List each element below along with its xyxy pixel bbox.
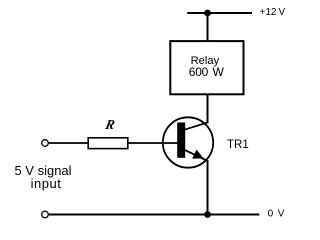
node +12V junction dot <box>204 10 211 17</box>
transistor TR1 <box>163 117 213 167</box>
wire relay bottom to collector <box>207 95 209 124</box>
wire emitter to 0V rail <box>207 160 209 215</box>
input terminal bottom <box>42 211 49 218</box>
node 0V junction dot <box>204 211 211 218</box>
input terminal top <box>42 140 49 147</box>
svg-text:TR1: TR1 <box>227 139 249 151</box>
wire base lead <box>49 142 178 144</box>
svg-text:input: input <box>31 176 62 191</box>
svg-text:0 V: 0 V <box>268 209 286 220</box>
collector lead <box>185 122 209 129</box>
emitter lead <box>185 150 209 161</box>
svg-text:600 W: 600 W <box>189 65 225 79</box>
relay box <box>170 41 243 94</box>
wire 0V rail <box>49 214 260 216</box>
transistor circle <box>163 117 213 167</box>
svg-text:+12 V: +12 V <box>260 7 286 18</box>
emitter arrowhead <box>192 150 203 159</box>
wire rail to relay top <box>207 13 209 42</box>
resistor R <box>88 138 128 149</box>
wire +12V rail <box>187 12 252 14</box>
base bar <box>177 123 185 158</box>
